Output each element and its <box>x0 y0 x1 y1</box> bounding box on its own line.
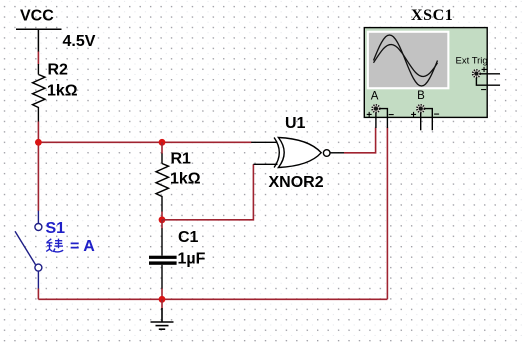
svg-text:1kΩ: 1kΩ <box>47 83 78 100</box>
scope pin A minus <box>380 109 388 128</box>
terminal A <box>371 104 380 113</box>
resistor R1 <box>156 154 169 212</box>
svg-text:U1: U1 <box>285 115 306 132</box>
junction left node <box>35 139 42 146</box>
svg-text:R2: R2 <box>48 62 69 79</box>
scope trace channel A <box>374 35 438 86</box>
op gate U1 XNOR2 body <box>274 138 321 168</box>
wire top horizontal to gate input <box>38 141 251 143</box>
svg-text:−: − <box>434 110 440 121</box>
oscilloscope XSC1 <box>364 28 487 118</box>
wire R1 bottom to gate input B <box>162 164 253 220</box>
power symbol VCC <box>16 29 62 52</box>
ground <box>151 308 174 329</box>
wire scope A minus down and along bottom <box>386 128 388 300</box>
wire R2 to node A1 <box>37 122 39 143</box>
Ext minus pin <box>476 78 500 86</box>
svg-text:R1: R1 <box>171 150 192 167</box>
scope pin A plus <box>375 112 377 128</box>
svg-text:S1: S1 <box>46 220 66 237</box>
svg-text:XNOR2: XNOR2 <box>269 174 324 191</box>
gate input pin B <box>253 163 277 165</box>
svg-text:+: + <box>411 110 417 121</box>
wire node to C1 <box>161 220 163 229</box>
resistor R2 <box>33 64 46 122</box>
wire node to ground <box>161 299 163 308</box>
key label 键 = A <box>46 239 63 252</box>
svg-text:C1: C1 <box>178 229 199 246</box>
svg-text:1kΩ: 1kΩ <box>170 170 201 187</box>
wire VCC to R2 <box>37 52 39 65</box>
capacitor C1 <box>149 256 177 265</box>
svg-text:4.5V: 4.5V <box>63 33 96 50</box>
svg-text:−: − <box>481 85 487 96</box>
wire C1 to bottom node <box>161 289 163 300</box>
switch S1 <box>15 211 42 289</box>
svg-text:VCC: VCC <box>20 7 54 24</box>
svg-text:1µF: 1µF <box>178 251 206 268</box>
junction R1 bottom node <box>159 216 166 223</box>
svg-text:= A: = A <box>70 238 95 255</box>
svg-text:+: + <box>366 110 372 121</box>
wire gate output to scope A <box>344 128 376 153</box>
scope pin B plus <box>420 112 422 130</box>
gate input pin A <box>251 141 277 143</box>
scope pin B minus <box>425 109 433 131</box>
svg-text:B: B <box>417 90 425 102</box>
gate output pin <box>330 152 345 154</box>
svg-text:−: − <box>388 110 394 121</box>
svg-text:XSC1: XSC1 <box>411 7 453 24</box>
wire R1 to bottom node <box>161 212 163 220</box>
terminal B <box>416 104 425 113</box>
inversion bubble <box>323 150 330 157</box>
svg-text:A: A <box>371 91 379 103</box>
svg-text:+: + <box>481 65 487 76</box>
wire left vertical to switch <box>37 142 39 211</box>
wire node to R1 <box>161 142 163 154</box>
junction R1 top node <box>159 139 166 146</box>
wire bottom horizontal <box>38 298 387 300</box>
terminal Ext <box>472 69 481 78</box>
Ext plus pin <box>480 73 500 75</box>
scope trace channel B <box>374 45 438 77</box>
wire switch to bottom <box>37 289 39 300</box>
junction ground node <box>159 296 166 303</box>
